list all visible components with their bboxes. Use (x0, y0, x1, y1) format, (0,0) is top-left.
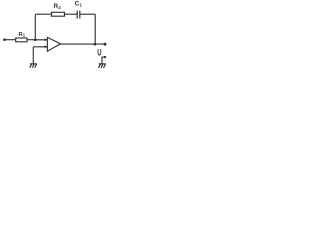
wire lower input (33, 46, 47, 48)
ground left (30, 64, 37, 68)
ground right (99, 64, 106, 68)
arrowhead upper input (45, 39, 48, 42)
output terminal lower (104, 56, 106, 58)
wire node A to op-amp input (35, 39, 47, 41)
wire C1 to right corner (80, 13, 95, 15)
capacitor C1 plate left (76, 11, 78, 19)
capacitor C1 plate right (79, 11, 81, 19)
feedback left vertical wire (34, 14, 36, 40)
input terminal (3, 38, 6, 41)
wire lower input down (32, 47, 34, 64)
wire R2 to C1 (65, 13, 78, 15)
top wire to R2 (35, 13, 51, 15)
output terminal upper (104, 43, 107, 46)
wire R1 to node A (27, 39, 35, 41)
label R1 (19, 32, 26, 38)
svg-text:U: U (97, 47, 101, 58)
feedback right vertical wire (94, 14, 96, 44)
resistor R1 (16, 38, 27, 42)
label U (97, 47, 101, 58)
arrowhead lower input (45, 46, 48, 49)
wire input to R1 (6, 39, 16, 41)
op-amp U1 (47, 37, 60, 51)
resistor R2 (52, 12, 65, 16)
label C1 (75, 1, 83, 8)
output wire (61, 43, 105, 45)
node A junction (34, 39, 37, 42)
junction output node (94, 43, 97, 46)
wire lower terminal to ground (102, 57, 105, 64)
label R2 (54, 3, 62, 10)
